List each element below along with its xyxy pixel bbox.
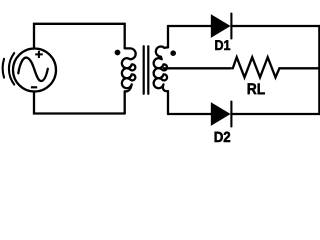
wire bottom-left loop bbox=[34, 93, 125, 114]
diode D1 bbox=[212, 14, 231, 39]
AC source V1 bbox=[13, 49, 56, 92]
diode D2 bbox=[212, 102, 231, 127]
primary polarity dot bbox=[115, 50, 121, 56]
AC source sine wave bbox=[18, 58, 48, 81]
svg-text:D1: D1 bbox=[214, 38, 230, 54]
AC source plus sign bbox=[35, 51, 43, 58]
D2 cathode bar bbox=[230, 102, 232, 127]
resistor RL bbox=[233, 57, 280, 77]
wire top-left loop bbox=[34, 24, 125, 47]
AC wave arc inner bbox=[9, 53, 14, 84]
wire RL to right edge bbox=[279, 67, 320, 69]
transformer secondary winding bbox=[154, 26, 168, 114]
D1 anode triangle bbox=[212, 16, 228, 36]
D2 anode triangle bbox=[212, 104, 228, 124]
wire secondary top to D1 bbox=[168, 25, 212, 27]
wire center tap to RL bbox=[164, 67, 231, 69]
AC wave arc outer bbox=[3, 59, 4, 78]
wire secondary bottom to D2 bbox=[168, 113, 212, 115]
AC source minus sign bbox=[31, 86, 37, 88]
D1 cathode bar bbox=[230, 14, 232, 39]
wire D2 to right edge bbox=[231, 113, 320, 115]
svg-text:D2: D2 bbox=[214, 130, 231, 146]
wire right edge vertical bbox=[318, 26, 320, 114]
secondary polarity dot bbox=[170, 50, 176, 56]
wire D1 to right edge bbox=[231, 25, 320, 27]
transformer primary winding bbox=[122, 24, 136, 114]
AC source circle bbox=[13, 49, 56, 92]
svg-text:RL: RL bbox=[247, 81, 266, 98]
transformer core bbox=[144, 46, 149, 94]
